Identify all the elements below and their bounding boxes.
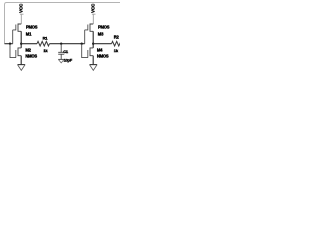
svg-text:R2: R2 xyxy=(114,34,120,39)
svg-text:10pF: 10pF xyxy=(64,57,73,62)
svg-text:VCC: VCC xyxy=(91,3,96,13)
wire feedback net (gray) top xyxy=(5,3,121,44)
svg-text:M3: M3 xyxy=(98,31,104,36)
svg-text:C1: C1 xyxy=(63,49,69,54)
wire M2 gate branch xyxy=(10,44,16,58)
node A (gate net 1 junction) xyxy=(9,43,11,45)
wire M4 gate branch xyxy=(82,44,88,58)
node B (C1 tap) xyxy=(60,43,62,45)
node stage2 output xyxy=(92,43,94,45)
node stage1 output xyxy=(20,43,22,45)
wire stage1 out to R1 xyxy=(21,43,37,45)
wire R1 to node B xyxy=(50,43,85,45)
wire stage2 out to R2 xyxy=(93,43,111,45)
svg-text:R1: R1 xyxy=(43,35,49,40)
svg-text:VCC: VCC xyxy=(19,3,24,13)
svg-text:M1: M1 xyxy=(26,31,32,36)
transistor M4 xyxy=(90,48,93,56)
wire rail1 mid xyxy=(20,31,22,48)
svg-text:1k: 1k xyxy=(43,48,48,53)
ground stage2 xyxy=(90,64,98,66)
wire rail2 bottom xyxy=(92,56,94,65)
resistor R2 xyxy=(112,41,124,46)
svg-text:NMOS: NMOS xyxy=(97,54,109,59)
power VCC right xyxy=(92,14,96,24)
transistor M1 xyxy=(18,24,21,31)
svg-text:NMOS: NMOS xyxy=(25,54,37,59)
node C (gate net 2 junction) xyxy=(81,43,83,45)
svg-text:M4: M4 xyxy=(97,48,103,53)
svg-text:PMOS: PMOS xyxy=(26,25,38,30)
transistor M3 xyxy=(90,24,93,31)
svg-text:1k: 1k xyxy=(114,48,119,53)
power VCC left xyxy=(20,14,24,24)
svg-text:PMOS: PMOS xyxy=(98,25,110,30)
transistor M2 xyxy=(18,48,21,56)
wire rail2 mid xyxy=(92,31,94,48)
capacitor C1 xyxy=(60,44,62,60)
wire rail1 bottom xyxy=(20,56,22,65)
resistor R1 xyxy=(37,41,49,46)
wire input net stage1 xyxy=(5,43,13,45)
svg-text:M2: M2 xyxy=(25,48,31,53)
ground stage1 xyxy=(18,64,26,66)
ground C1 xyxy=(58,58,64,60)
